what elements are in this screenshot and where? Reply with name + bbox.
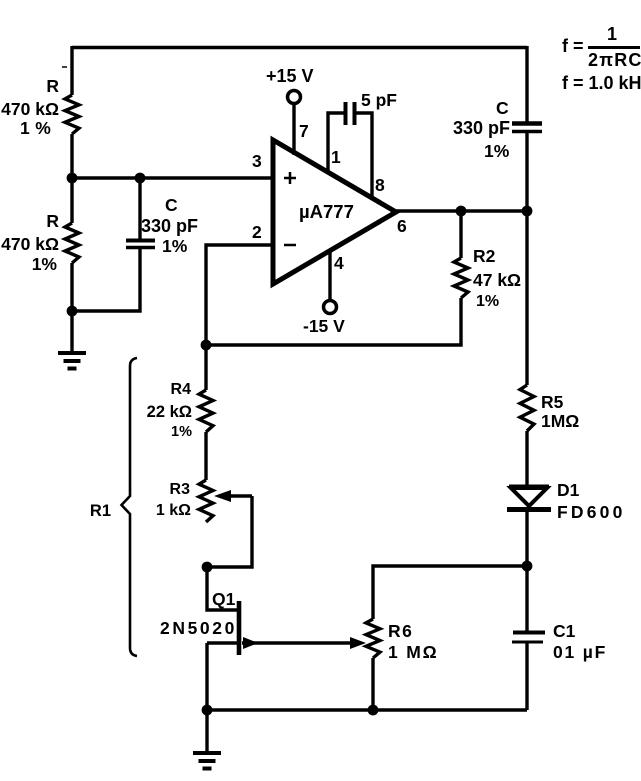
- pin 8 wire: [356, 113, 372, 199]
- op-amp U1 uA777 triangle: [273, 140, 396, 284]
- bottom rail wire: [207, 708, 527, 711]
- transistor Q1 bar: [237, 601, 242, 655]
- resistor R6: [366, 619, 380, 658]
- R6 wiper arrowhead: [350, 637, 366, 649]
- svg-text:3: 3: [252, 151, 262, 171]
- svg-text:µA777: µA777: [299, 201, 354, 222]
- svg-text:f =: f =: [562, 36, 584, 56]
- Q1 source wire: [207, 643, 237, 710]
- wire left vertical bottom: [70, 263, 73, 353]
- svg-text:330 pF: 330 pF: [453, 118, 510, 138]
- node D1/C1/R6: [522, 561, 533, 572]
- R4 top lead: [204, 345, 207, 390]
- svg-text:C: C: [496, 98, 509, 118]
- R2 top lead: [459, 211, 462, 258]
- svg-text:1%: 1%: [20, 118, 56, 138]
- R3 wiper loop wire: [207, 496, 252, 567]
- svg-text:1: 1: [331, 147, 341, 167]
- svg-text:f = 1.0 kHz: f = 1.0 kHz: [562, 73, 641, 93]
- stray scan dash: [62, 66, 67, 68]
- svg-text:8: 8: [375, 175, 385, 195]
- svg-text:01 µF: 01 µF: [553, 642, 607, 662]
- -15V terminal circle: [324, 301, 337, 314]
- top rail wire: [72, 46, 527, 49]
- svg-text:1 kΩ: 1 kΩ: [156, 502, 191, 519]
- svg-text:R5: R5: [541, 392, 564, 412]
- svg-text:5 pF: 5 pF: [361, 90, 397, 110]
- node output R2: [456, 206, 467, 217]
- svg-text:2πRC: 2πRC: [588, 50, 641, 70]
- R6 bottom lead: [371, 658, 374, 710]
- D1 to node wire: [525, 510, 528, 566]
- resistor R5: [520, 385, 534, 431]
- resistor R4: [199, 390, 213, 432]
- capacitor C (330 pF left): [126, 239, 155, 243]
- svg-text:2N5020: 2N5020: [160, 618, 237, 638]
- op-amp plus input mark: [284, 172, 296, 184]
- diode D1: [509, 485, 549, 489]
- R4 to R3 wire: [204, 432, 207, 480]
- R2 bottom lead / feedback wire: [206, 298, 461, 345]
- svg-text:1: 1: [607, 24, 617, 44]
- resistor R2: [454, 258, 468, 298]
- ground (left): [58, 351, 86, 355]
- svg-text:R1: R1: [90, 502, 111, 520]
- svg-text:470 kΩ: 470 kΩ: [1, 99, 59, 119]
- svg-text:-15 V: -15 V: [303, 316, 345, 336]
- brace R1: [122, 358, 138, 656]
- node R6 bottom: [368, 705, 379, 716]
- svg-text:C1: C1: [553, 621, 576, 641]
- wire node to R6 top: [373, 566, 527, 619]
- pin 7 wire: [292, 104, 295, 155]
- C1 bottom lead: [525, 643, 528, 710]
- node output right rail: [522, 206, 533, 217]
- pin 1 wire: [328, 113, 344, 172]
- wire C top lead: [138, 178, 141, 239]
- svg-text:470 kΩ: 470 kΩ: [1, 234, 59, 254]
- svg-text:330 pF: 330 pF: [141, 216, 198, 236]
- wire left vertical top segment: [70, 46, 73, 95]
- svg-text:R2: R2: [473, 246, 496, 266]
- pin 2 wire: [206, 245, 273, 345]
- R3 wiper arrow: [228, 494, 252, 497]
- svg-text:1%: 1%: [484, 141, 510, 161]
- svg-text:D1: D1: [557, 480, 580, 500]
- node feedback: [201, 340, 212, 351]
- resistor R (lower 470k): [65, 223, 79, 263]
- node R3 bottom: [202, 562, 213, 573]
- svg-text:6: 6: [397, 216, 407, 236]
- formula f = 1/(2 pi RC): [562, 24, 641, 70]
- svg-text:+15 V: +15 V: [266, 66, 314, 86]
- ground (bottom): [205, 710, 208, 753]
- wire left vertical middle: [70, 134, 73, 223]
- svg-text:C: C: [165, 195, 178, 215]
- Q1 gate wire: [207, 567, 237, 610]
- svg-text:Q1: Q1: [212, 589, 236, 609]
- svg-text:R4: R4: [171, 381, 192, 398]
- pin 4 wire: [328, 251, 331, 300]
- svg-text:4: 4: [334, 253, 344, 273]
- svg-text:FD600: FD600: [557, 502, 626, 522]
- wire C bottom lead: [72, 249, 140, 311]
- C1 top lead: [525, 566, 528, 631]
- op-amp minus input mark: [284, 244, 296, 247]
- capacitor 5pF plates: [344, 102, 348, 125]
- svg-text:R6: R6: [388, 621, 413, 641]
- +15V terminal circle: [288, 91, 301, 104]
- svg-text:R3: R3: [170, 481, 191, 498]
- resistor R3 (pot): [199, 480, 213, 522]
- svg-text:R: R: [46, 76, 59, 96]
- svg-text:R: R: [46, 211, 59, 231]
- wire to pin 3: [72, 176, 273, 179]
- output wire: [394, 209, 527, 212]
- svg-text:1 MΩ: 1 MΩ: [388, 642, 438, 662]
- svg-text:1%: 1%: [32, 254, 58, 274]
- svg-text:1%: 1%: [162, 236, 188, 256]
- node C bottom: [67, 306, 78, 317]
- node C top: [135, 173, 146, 184]
- capacitor C (330 pF right): [512, 121, 542, 126]
- svg-text:7: 7: [299, 121, 309, 141]
- capacitor C1: [513, 631, 545, 635]
- node at noninverting input junction: [67, 173, 78, 184]
- right rail top segment: [525, 46, 528, 122]
- R5 to D1 wire: [525, 431, 528, 487]
- Q1 emitter arrow: [242, 641, 352, 644]
- right rail middle segment: [525, 133, 528, 385]
- svg-text:1%: 1%: [476, 293, 499, 310]
- node bottom left: [202, 705, 213, 716]
- svg-text:2: 2: [252, 222, 262, 242]
- svg-text:47 kΩ: 47 kΩ: [473, 270, 521, 290]
- resistor R (upper 470k): [65, 95, 79, 134]
- svg-text:1MΩ: 1MΩ: [541, 411, 579, 431]
- svg-text:22 kΩ: 22 kΩ: [147, 403, 192, 421]
- svg-text:1%: 1%: [171, 424, 192, 440]
